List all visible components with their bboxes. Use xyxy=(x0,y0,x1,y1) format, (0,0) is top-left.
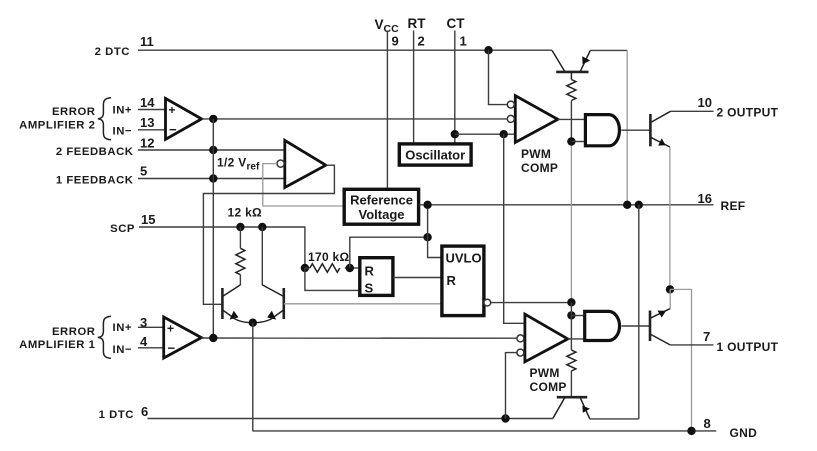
block UVLO xyxy=(442,246,484,316)
node REF tie xyxy=(423,233,431,241)
wire PWM COMP 2 output xyxy=(558,118,586,120)
wire EA1 output to PWM COMP 1 xyxy=(201,337,517,339)
node REF down junction xyxy=(635,201,643,209)
op-amp EA2 error amplifier 2 xyxy=(166,98,202,139)
svg-text:ERROR: ERROR xyxy=(52,326,96,338)
pin CT label xyxy=(447,16,467,49)
svg-text:ERROR: ERROR xyxy=(52,106,96,118)
wire CT down to Oscillator xyxy=(454,31,456,144)
transistor Q1 dead-time 2 xyxy=(552,50,590,79)
svg-text:S: S xyxy=(365,281,374,296)
wire SCP pin 15 xyxy=(139,227,305,268)
arrowhead Q5 emitter xyxy=(658,138,665,145)
ERROR AMPLIFIER 2 label xyxy=(19,106,95,131)
wire Q5 collector to pin 10 xyxy=(671,110,714,112)
pin 7 1 OUTPUT label xyxy=(703,329,779,354)
transistor Q3 PNP pair left xyxy=(222,285,252,323)
wire feedback bus vertical xyxy=(212,119,214,338)
svg-text:IN−: IN− xyxy=(113,126,133,138)
svg-text:16: 16 xyxy=(698,191,712,206)
wire emitters to GND xyxy=(670,289,692,431)
svg-text:1/2 V: 1/2 V xyxy=(217,156,247,170)
pin 12 2 FEEDBACK label xyxy=(56,135,155,158)
wire UVLO output xyxy=(491,302,572,304)
svg-text:170 kΩ: 170 kΩ xyxy=(308,250,350,264)
wire S input xyxy=(305,268,360,290)
svg-text:+: + xyxy=(167,322,174,336)
wire vertical through to R4 xyxy=(570,303,572,350)
svg-text:IN−: IN− xyxy=(113,344,133,356)
wire VCC down to Reference Voltage xyxy=(386,31,388,190)
wire 2DTC down to PWM COMP 2 top input xyxy=(489,50,508,104)
gate AND1 xyxy=(585,311,620,340)
svg-text:Reference: Reference xyxy=(350,193,413,208)
svg-text:REF: REF xyxy=(721,199,746,213)
comparator PWM COMP 1 xyxy=(525,314,568,394)
resistor R2 170 kOhm xyxy=(305,264,360,273)
resistor R3 dead-time 2 xyxy=(567,80,576,303)
wire EA2 IN+ xyxy=(138,109,166,111)
node EA1 output xyxy=(209,334,217,342)
wire EA1 IN- xyxy=(138,347,164,349)
svg-text:6: 6 xyxy=(141,404,148,419)
svg-text:R: R xyxy=(447,273,457,288)
transistor Q5 output 2 xyxy=(650,111,670,147)
node 12k right junction xyxy=(258,223,266,231)
wire REF tie up to REF line xyxy=(427,205,429,237)
wire PWM COMP 1 output xyxy=(568,338,585,340)
svg-text:SCP: SCP xyxy=(110,223,135,235)
wire Q2 right to REF riser xyxy=(590,418,639,420)
op-amp U2 1/2 Vref buffer xyxy=(285,140,326,187)
wire tail to GND xyxy=(252,323,254,431)
node REF-RefV junction xyxy=(423,201,431,209)
wire right PNP base gray to UVLO xyxy=(284,303,442,305)
brace EA1 xyxy=(98,316,111,358)
svg-text:COMP: COMP xyxy=(521,161,558,175)
wire SCP right branch down xyxy=(261,227,263,285)
wire GND line xyxy=(252,430,716,432)
wire 1 DTC pin 6 xyxy=(148,418,553,420)
svg-text:PWM: PWM xyxy=(530,366,560,380)
wire AND2 output to Q5 base xyxy=(621,129,650,131)
wire REF down to Q2 xyxy=(638,205,640,419)
node PNP common tail xyxy=(249,319,257,327)
svg-text:+: + xyxy=(169,103,176,117)
node 12k left junction xyxy=(236,223,244,231)
svg-text:13: 13 xyxy=(140,115,154,130)
wire 2 DTC pin 11 xyxy=(138,49,552,51)
ERROR AMPLIFIER 1 label xyxy=(19,326,95,351)
pin 11 2 DTC label xyxy=(95,34,154,58)
svg-text:1 DTC: 1 DTC xyxy=(99,409,134,421)
wire REF tie to UVLO input xyxy=(428,237,442,257)
pin 5 1 FEEDBACK label xyxy=(56,164,147,187)
pin 10 2 OUTPUT label xyxy=(698,95,779,120)
wire 170k to REF tie xyxy=(350,237,428,268)
bubble PWM COMP 2 input a xyxy=(507,101,514,108)
bubble PWM COMP 2 input b xyxy=(507,115,514,122)
pin 4 IN- label xyxy=(113,334,149,356)
svg-text:14: 14 xyxy=(140,95,155,110)
pin 14 IN+ label xyxy=(113,95,156,116)
brace EA2 xyxy=(98,98,111,140)
svg-text:12 kΩ: 12 kΩ xyxy=(228,206,263,220)
arrowhead Q1 collector xyxy=(582,56,590,64)
bubble PWM COMP 1 input a xyxy=(517,335,524,342)
node CT branch xyxy=(451,130,459,138)
svg-text:Voltage: Voltage xyxy=(359,207,405,222)
pin 16 REF label xyxy=(698,191,746,213)
node AND1 upper junction xyxy=(567,311,575,319)
node 170k right xyxy=(346,264,354,272)
block Reference Voltage xyxy=(344,189,418,224)
svg-text:ref: ref xyxy=(247,162,260,173)
pin 15 SCP label xyxy=(110,212,155,235)
svg-text:IN+: IN+ xyxy=(113,322,133,334)
svg-text:CT: CT xyxy=(447,16,466,31)
pin RT label xyxy=(408,16,427,49)
svg-text:10: 10 xyxy=(698,95,712,110)
wire AND1 output to Q6 base xyxy=(621,325,650,327)
wire AND1 upper input xyxy=(571,315,584,317)
svg-text:5: 5 xyxy=(140,164,147,179)
svg-text:GND: GND xyxy=(730,426,758,440)
svg-text:1 FEEDBACK: 1 FEEDBACK xyxy=(56,174,134,186)
op-amp EA1 error amplifier 1 xyxy=(164,317,202,358)
node CT bus junction xyxy=(500,130,508,138)
node 2FB junction xyxy=(209,146,217,154)
node 170k left xyxy=(301,264,309,272)
pin 13 IN- label xyxy=(113,115,155,138)
bubble PWM COMP 1 input b xyxy=(517,349,524,356)
svg-text:R: R xyxy=(365,264,375,279)
transistor Q4 PNP pair right xyxy=(253,285,284,323)
pin 8 GND label xyxy=(704,416,758,440)
resistor R4 dead-time 1 xyxy=(567,350,576,397)
pin VCC label xyxy=(375,17,400,49)
svg-text:V: V xyxy=(375,17,384,32)
comparator PWM COMP 2 xyxy=(515,96,558,175)
wire Q5 emitter down xyxy=(669,147,671,289)
svg-text:2 DTC: 2 DTC xyxy=(95,46,130,58)
wire RS output to UVLO R input xyxy=(393,277,442,279)
svg-text:11: 11 xyxy=(140,34,154,49)
wire CT to PWM comparators xyxy=(455,133,516,135)
transistor Q2 dead-time 1 xyxy=(553,397,590,419)
wire Q6 emitter up xyxy=(669,289,671,308)
svg-text:AMPLIFIER 1: AMPLIFIER 1 xyxy=(19,339,95,351)
svg-text:2: 2 xyxy=(418,34,425,49)
node UVLO junction xyxy=(567,298,575,306)
svg-text:UVLO: UVLO xyxy=(446,251,482,266)
svg-text:2 OUTPUT: 2 OUTPUT xyxy=(717,106,779,120)
block Oscillator xyxy=(399,144,471,165)
wire buffer output to PNP pair base xyxy=(203,165,334,304)
wire 1DTC up to PWM COMP 1 lower input xyxy=(506,353,518,419)
svg-text:PWM: PWM xyxy=(521,147,551,161)
node AND2 lower input junction xyxy=(567,137,575,145)
wire gray buffer input loop to Reference Voltage xyxy=(263,164,344,206)
wire EA1 IN+ xyxy=(138,326,164,328)
arrowhead Q6 emitter xyxy=(657,311,666,318)
node 1DTC junction xyxy=(501,414,509,422)
bubble UVLO output xyxy=(484,299,491,306)
svg-text:RT: RT xyxy=(408,16,427,31)
svg-text:2 FEEDBACK: 2 FEEDBACK xyxy=(56,146,134,158)
node REF drop xyxy=(623,201,631,209)
svg-text:1 OUTPUT: 1 OUTPUT xyxy=(717,340,779,354)
svg-text:COMP: COMP xyxy=(530,380,567,394)
pin 3 IN+ label xyxy=(113,315,148,334)
node EA2 output xyxy=(209,115,217,123)
svg-text:−: − xyxy=(168,341,176,356)
svg-text:12: 12 xyxy=(140,135,154,150)
node 2DTC junction xyxy=(484,46,492,54)
svg-text:8: 8 xyxy=(704,416,711,431)
arrowhead left emitter xyxy=(230,311,239,320)
wire EA2 output to PWM COMP 2 xyxy=(202,118,508,120)
arrowhead right emitter xyxy=(267,311,276,320)
node 1FB junction xyxy=(209,174,217,182)
pin 6 1 DTC label xyxy=(99,404,149,421)
transistor Q6 output 1 xyxy=(650,309,670,345)
wire 2 FEEDBACK xyxy=(138,149,285,151)
svg-text:AMPLIFIER 2: AMPLIFIER 2 xyxy=(19,119,95,131)
svg-text:15: 15 xyxy=(141,212,155,227)
svg-text:Oscillator: Oscillator xyxy=(405,148,465,163)
latch U3 RS xyxy=(360,258,393,296)
svg-text:IN+: IN+ xyxy=(113,104,133,116)
wire CT bus down to PWM COMP 1 xyxy=(504,134,525,323)
wire 1 FEEDBACK xyxy=(138,178,284,180)
svg-text:7: 7 xyxy=(703,329,710,344)
svg-text:1: 1 xyxy=(460,34,467,49)
svg-text:4: 4 xyxy=(140,334,148,349)
wire Q6 collector to pin 7 xyxy=(670,344,713,346)
resistor R1 12 kOhm xyxy=(236,227,245,285)
wire AND2 lower input xyxy=(571,141,585,143)
wire Q1 right to REF drop xyxy=(590,49,627,51)
bubble buffer inverting input xyxy=(277,160,284,167)
label 1/2 Vref xyxy=(217,156,260,173)
node GND junction xyxy=(687,427,695,435)
svg-text:−: − xyxy=(169,122,177,137)
wire RT down to Oscillator xyxy=(413,31,415,144)
wire EA2 IN- xyxy=(138,129,166,131)
gate AND2 xyxy=(585,115,619,146)
node emitters junction xyxy=(666,285,674,293)
arrowhead Q2 collector xyxy=(582,406,590,413)
wire REF line to pin 16 xyxy=(419,204,714,206)
svg-text:9: 9 xyxy=(392,34,399,49)
